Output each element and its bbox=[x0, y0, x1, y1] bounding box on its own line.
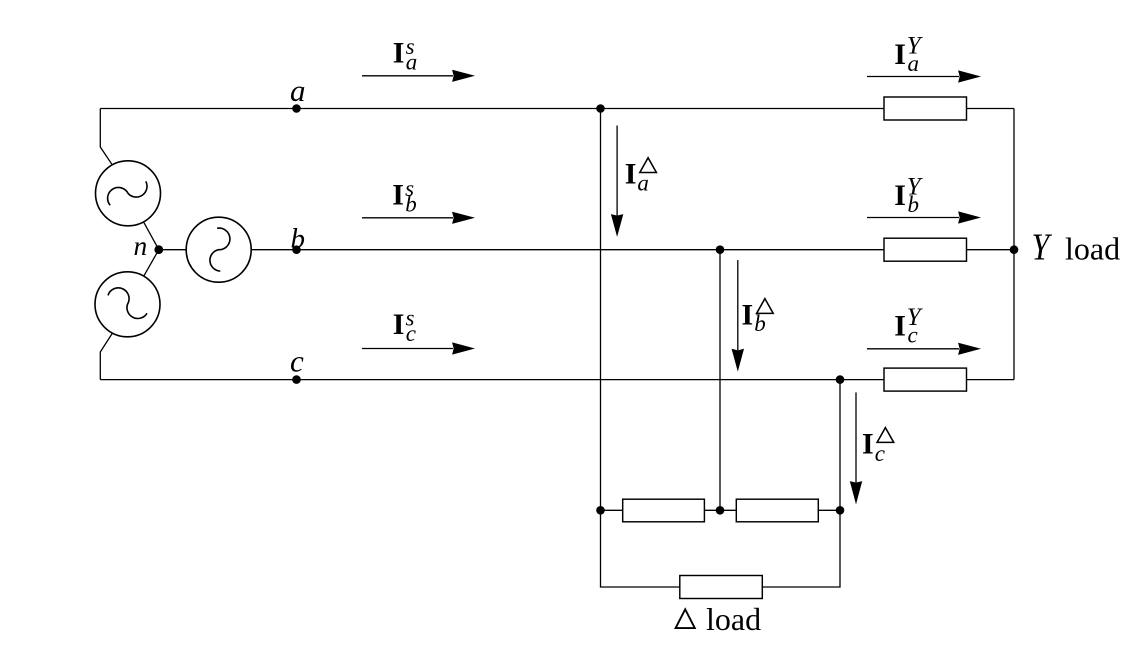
svg-text:load: load bbox=[706, 601, 761, 637]
svg-text:a: a bbox=[290, 73, 306, 108]
svg-text:a: a bbox=[908, 51, 920, 76]
wire delta branch c bbox=[839, 380, 841, 511]
svg-text:n: n bbox=[134, 230, 148, 261]
node b bbox=[292, 245, 301, 254]
label current Ia delta bbox=[625, 157, 657, 195]
label current Ic delta bbox=[862, 428, 894, 467]
label current Ib delta bbox=[742, 298, 774, 336]
arrow Ic s bbox=[362, 343, 473, 353]
arrow Ib s bbox=[362, 213, 473, 223]
svg-text:c: c bbox=[908, 323, 918, 348]
svg-text:I: I bbox=[393, 308, 405, 341]
label current Ib s bbox=[392, 176, 417, 216]
svg-text:I: I bbox=[894, 310, 906, 343]
node Y neutral bbox=[1010, 245, 1019, 254]
node b delta junction bbox=[716, 245, 725, 254]
source Vc bbox=[95, 272, 160, 337]
svg-text:I: I bbox=[392, 178, 404, 211]
resistor delta ab bbox=[623, 499, 705, 522]
node a bbox=[292, 104, 301, 113]
wire delta branch a bbox=[600, 109, 602, 511]
svg-text:I: I bbox=[625, 157, 637, 190]
svg-text:b: b bbox=[405, 191, 417, 216]
svg-text:I: I bbox=[894, 38, 906, 71]
arrow Ib Y bbox=[867, 212, 979, 222]
svg-text:I: I bbox=[393, 37, 405, 70]
label current Ia s bbox=[393, 34, 418, 74]
arrow Ic Y bbox=[867, 344, 979, 354]
svg-text:b: b bbox=[291, 223, 306, 255]
source Vb bbox=[186, 217, 251, 282]
arrow Ia s bbox=[362, 71, 473, 81]
node c delta junction bbox=[836, 375, 845, 384]
label current Ia Y bbox=[894, 33, 924, 77]
wire delta bottom loop bbox=[601, 510, 841, 587]
label current Ib Y bbox=[894, 174, 924, 218]
svg-text:c: c bbox=[290, 343, 304, 378]
node c bbox=[292, 375, 301, 384]
resistor Y phase c bbox=[884, 368, 967, 391]
wire Va to n bbox=[144, 222, 159, 250]
label delta load bbox=[676, 601, 761, 637]
svg-text:a: a bbox=[637, 170, 649, 195]
wire n to Vb bbox=[159, 249, 186, 251]
wire right bus bbox=[1013, 109, 1015, 380]
node delta c bbox=[836, 506, 845, 515]
svg-text:b: b bbox=[908, 192, 920, 217]
svg-text:load: load bbox=[1065, 231, 1120, 267]
wire phase b bbox=[251, 249, 1014, 251]
resistor Y phase b bbox=[884, 238, 967, 261]
wire phase c bbox=[100, 379, 1014, 381]
svg-text:I: I bbox=[742, 298, 754, 331]
arrow Ia delta bbox=[612, 126, 623, 235]
wire phase a bbox=[100, 108, 1014, 110]
wire left riser top bbox=[100, 109, 112, 165]
node n bbox=[154, 245, 163, 254]
wire delta branch b bbox=[719, 250, 721, 511]
resistor delta ca bbox=[680, 576, 763, 599]
svg-text:I: I bbox=[862, 428, 874, 461]
svg-text:a: a bbox=[406, 50, 418, 75]
resistor delta bc bbox=[736, 499, 818, 522]
svg-text:b: b bbox=[754, 311, 766, 336]
svg-text:c: c bbox=[875, 441, 885, 466]
node delta a bbox=[596, 506, 605, 515]
label Y load bbox=[1032, 226, 1121, 268]
resistor Y phase a bbox=[884, 97, 967, 120]
svg-text:Y: Y bbox=[1032, 226, 1053, 268]
node delta b bbox=[716, 506, 725, 515]
svg-text:c: c bbox=[406, 321, 416, 346]
svg-text:I: I bbox=[894, 179, 906, 212]
arrow Ic delta bbox=[851, 392, 862, 501]
wire Vc to n bbox=[144, 250, 159, 277]
wire delta top row bbox=[601, 509, 841, 511]
node a delta junction bbox=[596, 104, 605, 113]
wire left riser bottom bbox=[100, 333, 112, 380]
arrow Ia Y bbox=[867, 71, 979, 81]
arrow Ib delta bbox=[733, 260, 744, 369]
label current Ic s bbox=[393, 305, 416, 345]
label current Ic Y bbox=[894, 304, 924, 348]
source Va bbox=[96, 161, 161, 226]
